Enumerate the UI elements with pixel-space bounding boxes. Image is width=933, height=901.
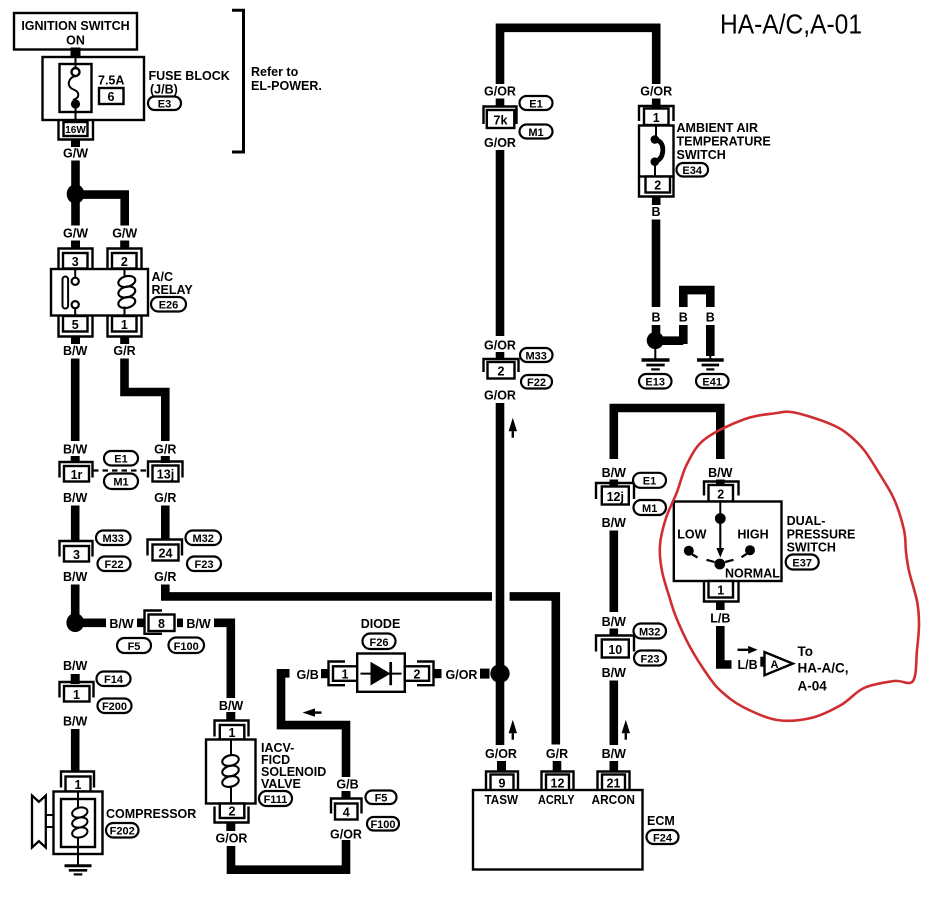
svg-text:L/B: L/B — [710, 612, 730, 626]
svg-text:ACRLY: ACRLY — [538, 793, 575, 807]
wire label G/OR below conn 2 — [484, 389, 516, 403]
wire stub below 16W — [71, 140, 80, 148]
fuse number box 6 — [99, 88, 124, 104]
wire label L/B — [710, 612, 730, 626]
svg-text:F5: F5 — [375, 793, 388, 805]
connector ref F100 (right) — [367, 817, 399, 831]
wire label B/W above IACV — [215, 698, 247, 713]
wire stub above IACV pin1 — [226, 712, 235, 721]
wire stub below IACV pin2 — [226, 823, 235, 832]
svg-text:F111: F111 — [264, 794, 288, 806]
svg-text:B: B — [651, 311, 660, 325]
dual-pressure switch pin 2 — [704, 482, 739, 502]
wire stub above 10 — [610, 629, 619, 637]
connector ref M32 — [186, 531, 222, 546]
wire label B/W above 12j — [602, 466, 627, 480]
diode pin 2 connector — [405, 662, 434, 686]
relay pin 1 connector — [108, 316, 142, 337]
connector ref F200 — [98, 699, 132, 714]
svg-text:G/W: G/W — [112, 227, 137, 241]
wire stub above 12j — [610, 480, 619, 487]
svg-text:2: 2 — [229, 805, 236, 819]
wire stub into ECM pin 21 — [610, 761, 619, 772]
svg-text:B/W: B/W — [63, 491, 88, 505]
svg-text:M33: M33 — [525, 351, 546, 363]
connector ref E1 — [104, 451, 138, 466]
label A/C RELAY — [152, 270, 194, 297]
connector ref F24 — [647, 830, 679, 845]
svg-text:24: 24 — [159, 547, 173, 561]
wire label B — [651, 205, 660, 219]
label COMPRESSOR — [106, 807, 196, 821]
pressure switch internals — [684, 502, 755, 570]
ambient air temperature switch pin 2 — [639, 177, 674, 197]
dual-pressure switch S2 box — [674, 502, 782, 582]
svg-text:2: 2 — [717, 488, 724, 502]
wire stub above 7k — [496, 99, 505, 108]
svg-text:G/W: G/W — [63, 227, 88, 241]
svg-text:B/W: B/W — [602, 466, 627, 480]
svg-text:B/W: B/W — [63, 344, 88, 358]
refer-to bracket — [232, 10, 244, 152]
svg-text:B/W: B/W — [602, 516, 627, 530]
wire label G/OR below IACV — [216, 832, 248, 846]
wire label G/OR above conn 2 — [484, 339, 516, 353]
svg-text:1: 1 — [717, 584, 724, 598]
connector 10 (M32/F23) — [596, 636, 634, 658]
svg-text:G/OR: G/OR — [484, 136, 516, 150]
svg-text:SWITCH: SWITCH — [787, 541, 836, 555]
svg-text:G/B: G/B — [336, 778, 358, 792]
svg-text:E13: E13 — [645, 377, 665, 389]
wire label L/B (horizontal) — [738, 658, 758, 672]
label NORMAL — [725, 567, 780, 581]
svg-text:G/W: G/W — [63, 147, 88, 161]
svg-text:F14: F14 — [104, 674, 124, 686]
svg-text:2: 2 — [414, 668, 421, 682]
connector 24 (M32/F23) — [148, 540, 183, 561]
svg-text:SWITCH: SWITCH — [677, 148, 726, 162]
ECM U2 box — [473, 790, 643, 870]
svg-text:1: 1 — [653, 111, 660, 125]
svg-text:7.5A: 7.5A — [98, 74, 124, 88]
diode D1 body — [357, 654, 405, 692]
connector 3 (M33/F22) — [60, 541, 93, 562]
wire label G/R above ECM pin 12 — [546, 747, 568, 761]
flow arrow up (B/W) — [622, 720, 630, 740]
svg-text:G/R: G/R — [113, 344, 135, 358]
ambient switch contacts — [651, 126, 663, 177]
svg-text:F100: F100 — [174, 641, 199, 653]
svg-text:B/W: B/W — [63, 570, 88, 584]
svg-text:B/W: B/W — [602, 666, 627, 680]
diode symbol — [361, 662, 402, 686]
svg-text:F100: F100 — [370, 819, 395, 831]
wire stub below ambient pin 2 — [652, 197, 661, 206]
fuse value label 7.5A — [98, 74, 124, 88]
svg-text:E1: E1 — [529, 99, 542, 111]
connector 2 (M33/F22) — [484, 359, 519, 379]
relay pin 3 connector — [59, 249, 93, 270]
connector ref M1 — [104, 474, 138, 490]
relay coil — [117, 269, 136, 317]
wire G/OR conn 2 to junction — [496, 403, 505, 665]
wire stub before junction — [480, 669, 490, 679]
wire G/OR junction to ECM pin 9 — [496, 682, 505, 745]
svg-text:12j: 12j — [607, 490, 624, 504]
IACV pin 2 connector — [215, 804, 249, 823]
ground E41 — [697, 354, 724, 369]
compressor coil — [71, 792, 89, 866]
red highlight circle (hand-drawn) — [660, 412, 919, 721]
svg-text:NORMAL: NORMAL — [725, 567, 780, 581]
svg-text:1: 1 — [342, 668, 349, 682]
connector ref E26 — [151, 297, 186, 312]
svg-text:F23: F23 — [195, 559, 214, 571]
svg-text:6: 6 — [108, 90, 115, 104]
wire stub above 1r — [71, 456, 80, 463]
connector ref F100 — [169, 638, 205, 654]
svg-text:E41: E41 — [702, 377, 722, 389]
svg-text:VALVE: VALVE — [261, 777, 301, 791]
wire label G/W — [63, 147, 88, 161]
wire G/OR IACV to connector 4 (bottom elbow) — [231, 840, 346, 870]
wire B/W junction to connector 8 — [82, 618, 145, 627]
wire label B/W below 10 — [602, 666, 627, 680]
svg-text:M32: M32 — [639, 627, 660, 639]
svg-text:10: 10 — [608, 643, 622, 657]
connector ref E1 (12j) — [633, 473, 666, 488]
ambient air temperature switch S1 box — [639, 126, 674, 177]
label HIGH — [737, 528, 768, 542]
wire G/R pin1 elbow to 13j — [125, 359, 166, 442]
wire B/W 1r to conn 3 — [71, 506, 80, 543]
connector 1r — [60, 462, 93, 482]
wire stub above 13j — [161, 456, 170, 463]
wire stub into ECM pin 12 — [553, 761, 562, 772]
wire stub into ECM pin 9 — [497, 761, 506, 772]
svg-text:DIODE: DIODE — [361, 617, 401, 631]
relay pin 2 connector — [108, 249, 142, 270]
svg-text:G/OR: G/OR — [446, 668, 478, 682]
svg-text:G/OR: G/OR — [484, 85, 516, 99]
connector 16W — [59, 120, 94, 140]
svg-text:12: 12 — [551, 777, 565, 791]
pin name ARCON — [592, 793, 636, 807]
fuse block box E3 — [43, 57, 145, 120]
wire stub diode pin1 — [321, 669, 329, 678]
connector ref F5 (right) — [366, 791, 397, 805]
connector ref F26 — [363, 634, 396, 650]
svg-text:E1: E1 — [114, 454, 127, 466]
connector ref E34 — [677, 163, 709, 177]
svg-text:B: B — [706, 311, 715, 325]
svg-text:9: 9 — [499, 777, 506, 791]
connector 12j (E1/M1) — [596, 483, 634, 505]
svg-text:F23: F23 — [641, 654, 660, 666]
svg-text:G/OR: G/OR — [640, 85, 672, 99]
wire B junction to middle branch — [661, 336, 683, 345]
wire stub below pin 1 — [120, 337, 129, 345]
label FUSE BLOCK (J/B) — [149, 69, 230, 97]
svg-text:B/W: B/W — [63, 715, 88, 729]
connector ref F23 (right) — [634, 651, 666, 666]
wire stub to relay pin3 — [71, 241, 80, 250]
IACV-FICD solenoid valve box — [206, 740, 256, 804]
diode pin 1 connector — [329, 662, 358, 686]
svg-text:A/C: A/C — [152, 270, 174, 284]
svg-text:F22: F22 — [527, 377, 546, 389]
pin name ACRLY — [538, 793, 575, 807]
wire stub to relay pin2 — [120, 241, 129, 250]
wire label B/W below F200 — [63, 715, 88, 729]
connector ref E41 — [696, 374, 729, 389]
relay pin 5 connector — [59, 316, 93, 337]
svg-text:E1: E1 — [643, 476, 656, 488]
svg-text:A-04: A-04 — [798, 679, 828, 694]
label Refer to EL-POWER. — [251, 65, 322, 93]
flow arrow up (center upper) — [509, 418, 517, 438]
wire B/W conn 10 to ECM pin 21 — [609, 681, 618, 746]
wire left G/W continues — [71, 202, 80, 226]
compressor clutch pulley symbol — [32, 796, 54, 848]
wire label B (middle) — [679, 311, 688, 325]
pin name TASW — [485, 793, 519, 807]
wire label G/OR right of diode — [446, 668, 478, 682]
svg-text:G/R: G/R — [546, 747, 568, 761]
svg-text:5: 5 — [72, 318, 79, 332]
title HA-A/C,A-01 — [720, 9, 862, 40]
svg-text:13j: 13j — [157, 468, 174, 482]
ground E13 — [642, 347, 670, 369]
svg-text:ON: ON — [66, 34, 85, 48]
IACV solenoid coil — [221, 740, 240, 804]
wire label G/R below 13j — [154, 491, 176, 505]
svg-text:B/W: B/W — [602, 615, 627, 629]
wire G/R 13j to conn 24 — [161, 506, 170, 541]
wire B/W conn3 to junction — [71, 585, 80, 615]
svg-text:EL-POWER.: EL-POWER. — [251, 79, 322, 93]
connector ref E13 — [639, 374, 672, 389]
svg-text:1: 1 — [75, 778, 82, 792]
svg-text:M33: M33 — [102, 533, 123, 545]
off-page connector A — [765, 652, 793, 675]
svg-text:A: A — [771, 659, 779, 671]
svg-text:FUSE BLOCK: FUSE BLOCK — [149, 69, 230, 83]
connector ref F22 (center) — [521, 375, 552, 389]
wire stub below pin 5 — [71, 337, 80, 345]
wire stub above pressure pin 2 — [716, 480, 725, 487]
connector ref F202 — [106, 823, 139, 838]
connector ref F14 — [97, 672, 131, 687]
svg-text:E34: E34 — [682, 165, 702, 177]
wire G/OR top distribution bar — [500, 28, 656, 84]
connector 7k (E1/M1) — [484, 107, 517, 129]
connector ref M1 (12j) — [634, 500, 667, 515]
svg-text:RELAY: RELAY — [152, 283, 194, 297]
svg-text:M1: M1 — [113, 477, 128, 489]
svg-text:2: 2 — [654, 179, 661, 193]
svg-text:HA-A/C,: HA-A/C, — [798, 661, 849, 676]
svg-text:F26: F26 — [370, 637, 389, 649]
svg-text:(J/B): (J/B) — [150, 83, 178, 97]
wire label B/W below 1r — [63, 491, 88, 505]
wire label G/OR below 7k — [484, 136, 516, 150]
wire stub above connector 1 — [71, 674, 80, 684]
junction node B/W — [66, 613, 84, 632]
junction node B — [647, 332, 664, 349]
connector ref F111 — [259, 791, 292, 806]
svg-text:3: 3 — [72, 255, 79, 269]
wire L/B elbow to A — [720, 626, 731, 665]
label DIODE — [361, 617, 401, 631]
svg-text:M1: M1 — [642, 503, 657, 515]
svg-text:L/B: L/B — [738, 658, 758, 672]
svg-text:3: 3 — [73, 548, 80, 562]
svg-text:8: 8 — [158, 617, 165, 631]
connector ref E3 — [148, 97, 181, 111]
svg-text:PRESSURE: PRESSURE — [787, 528, 856, 542]
svg-text:B: B — [651, 205, 660, 219]
flow arrow right on L/B — [738, 646, 758, 654]
wire label G/OR left column — [484, 85, 516, 99]
svg-text:1: 1 — [229, 726, 236, 740]
svg-text:7k: 7k — [494, 114, 508, 128]
svg-text:M32: M32 — [192, 533, 213, 545]
wire G/B label above conn 4 — [336, 778, 358, 792]
wire label G/R below conn24 — [154, 570, 176, 584]
wire label B/W (on wire) — [106, 615, 137, 631]
svg-text:HA-A/C,A-01: HA-A/C,A-01 — [720, 9, 862, 40]
connector ref M33 — [96, 531, 131, 546]
wire stub before A — [760, 657, 770, 667]
wire label G/OR right column — [640, 85, 672, 99]
wire stub diode pin2 — [434, 669, 442, 678]
wire B inverted-U to E41 — [683, 290, 710, 356]
wire label B/W right of 8 (on wire) — [183, 615, 214, 631]
wire G/OR 7k to conn 2 — [496, 150, 505, 336]
flow arrow up (center lower) — [509, 720, 517, 740]
wire label G/W right — [112, 227, 137, 241]
relay contact bar — [63, 277, 69, 309]
svg-text:B: B — [679, 311, 688, 325]
wire G/B elbow from diode to conn4 — [281, 673, 346, 777]
svg-text:G/R: G/R — [154, 570, 176, 584]
wire B/W connector 8 elbow down to IACV — [177, 623, 231, 714]
wire B down to junction — [652, 220, 661, 308]
svg-text:F202: F202 — [110, 826, 135, 838]
connector ref M32 (right) — [634, 624, 667, 639]
svg-text:G/R: G/R — [154, 443, 176, 457]
label LOW — [677, 528, 706, 542]
dashed link 1r to 13j — [93, 469, 148, 471]
svg-text:B/W: B/W — [63, 659, 88, 673]
svg-text:TEMPERATURE: TEMPERATURE — [677, 135, 771, 149]
connector ref M33 (center) — [520, 348, 553, 363]
svg-text:B/W: B/W — [186, 617, 211, 631]
wire B/W distribution bar — [614, 408, 721, 459]
ECM pin 12 connector — [542, 772, 574, 791]
wire label B/W — [63, 344, 88, 358]
connector ref E37 — [786, 555, 819, 570]
wire label B (right) — [706, 311, 715, 325]
svg-text:IGNITION SWITCH: IGNITION SWITCH — [21, 19, 129, 33]
svg-text:1r: 1r — [71, 468, 83, 482]
wire label B/W above ECM pin 21 — [602, 747, 627, 761]
connector ref F5 — [117, 638, 151, 653]
svg-text:G/R: G/R — [154, 491, 176, 505]
relay contact circles — [72, 269, 79, 317]
svg-text:E26: E26 — [159, 300, 179, 312]
svg-text:To: To — [798, 644, 814, 659]
wire label G/OR above ECM pin 9 — [485, 747, 517, 761]
svg-text:B/W: B/W — [602, 747, 627, 761]
connector 8 (F5/F100) — [145, 611, 175, 634]
label AMBIENT AIR TEMPERATURE SWITCH — [677, 121, 771, 162]
svg-text:2: 2 — [498, 365, 505, 379]
wire B/W pin5 to 1r — [71, 359, 80, 442]
svg-text:G/OR: G/OR — [330, 828, 362, 842]
junction node G/OR (diode tap) — [490, 664, 509, 683]
svg-text:ARCON: ARCON — [592, 793, 636, 807]
label To HA-A/C A-04 — [798, 644, 849, 694]
wire label G/R — [113, 344, 135, 358]
svg-text:B/W: B/W — [109, 617, 134, 631]
wire branch right G/W — [78, 195, 125, 226]
wire stub above conn 2 — [496, 352, 505, 360]
wire stub above ambient pin 1 — [652, 99, 661, 108]
svg-text:2: 2 — [121, 255, 128, 269]
wire label G/OR below conn 4 — [330, 828, 362, 842]
wire G/W down to junction — [71, 161, 80, 188]
label ECM — [647, 814, 675, 828]
svg-text:Refer to: Refer to — [251, 65, 299, 79]
svg-text:F200: F200 — [102, 701, 127, 713]
IACV pin 1 connector — [215, 721, 249, 741]
connector ref F23 — [187, 557, 221, 572]
svg-text:1: 1 — [73, 688, 80, 702]
fuse 7.5A symbol — [69, 57, 80, 122]
wire stub above conn 4 — [342, 791, 351, 799]
connector ref F22 — [98, 557, 131, 572]
junction node G/W — [67, 184, 85, 203]
ECM pin 21 connector — [598, 772, 630, 791]
svg-text:HIGH: HIGH — [737, 528, 768, 542]
svg-text:COMPRESSOR: COMPRESSOR — [106, 807, 196, 821]
ambient air temperature switch pin 1 — [639, 106, 674, 125]
svg-text:4: 4 — [343, 806, 350, 820]
svg-text:B/W: B/W — [219, 699, 244, 713]
svg-text:TASW: TASW — [485, 793, 519, 807]
svg-text:F22: F22 — [105, 559, 124, 571]
svg-text:G/OR: G/OR — [216, 832, 248, 846]
relay U1 box A/C RELAY — [51, 269, 148, 316]
wire label B/W below 12j — [602, 516, 627, 530]
svg-text:21: 21 — [607, 777, 621, 791]
svg-text:DUAL-: DUAL- — [787, 514, 826, 528]
svg-text:E3: E3 — [158, 99, 171, 111]
svg-text:ECM: ECM — [647, 814, 675, 828]
connector ref E1 (7k) — [520, 96, 553, 111]
ground below compressor — [65, 866, 92, 875]
compressor pin 1 connector — [61, 772, 94, 793]
label DUAL-PRESSURE SWITCH — [787, 514, 856, 555]
svg-text:F5: F5 — [128, 641, 141, 653]
label IACV-FICD SOLENOID VALVE — [261, 741, 326, 791]
connector 13j — [148, 462, 183, 482]
compressor M1 box — [54, 792, 103, 855]
wire label B/W above 10 — [602, 615, 627, 629]
